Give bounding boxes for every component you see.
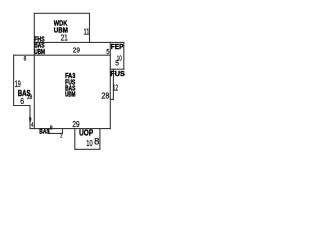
svg-text:19: 19	[15, 79, 21, 89]
svg-text:28: 28	[27, 94, 33, 101]
svg-text:BAS: BAS	[39, 128, 50, 135]
left BAS box left edge	[13, 55, 15, 105]
UOP porch outline	[75, 129, 100, 150]
svg-text:21: 21	[61, 33, 68, 43]
svg-text:UBM: UBM	[34, 49, 45, 56]
svg-text:10: 10	[86, 139, 93, 148]
svg-text:FEP: FEP	[111, 42, 124, 51]
FEP bottom edge	[110, 68, 124, 70]
main block bottom edge	[30, 128, 110, 130]
svg-text:5: 5	[106, 47, 109, 56]
FEP right edge	[123, 42, 125, 69]
svg-text:6: 6	[20, 97, 24, 106]
svg-text:11: 11	[84, 27, 90, 37]
svg-text:29: 29	[73, 45, 80, 54]
main block right edge / FEP-FUS left edge	[109, 42, 111, 128]
svg-text:5: 5	[115, 59, 119, 68]
svg-text:8: 8	[50, 126, 53, 132]
FUS narrow column right edge	[112, 69, 114, 99]
main block left edge	[33, 42, 35, 128]
FUS narrow column bottom edge	[110, 98, 113, 100]
strip section top edge / FEP top edge	[34, 41, 124, 43]
section WDK/UBM deck outline (top box)	[34, 13, 89, 42]
svg-text:UOP: UOP	[79, 128, 94, 137]
svg-text:28: 28	[101, 91, 109, 100]
bottom BAS bump outline	[49, 129, 63, 134]
svg-text:UBM: UBM	[65, 92, 76, 99]
svg-text:2: 2	[60, 133, 62, 139]
svg-text:8: 8	[94, 136, 99, 146]
left notch column right edge	[29, 106, 31, 129]
svg-text:12: 12	[113, 82, 119, 92]
svg-text:FUS: FUS	[110, 69, 125, 78]
strip bottom edge / left box top edge / main block top edge	[14, 54, 111, 56]
left BAS box bottom edge	[14, 105, 30, 107]
